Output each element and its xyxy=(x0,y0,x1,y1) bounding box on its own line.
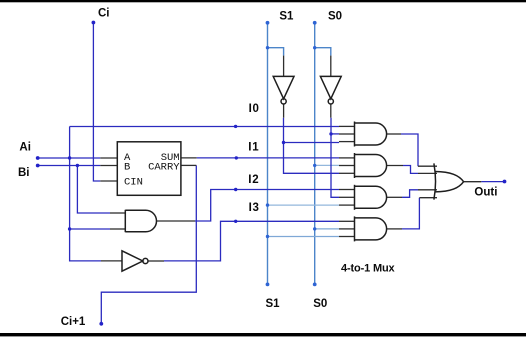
svg-text:B: B xyxy=(124,161,130,173)
svg-text:Ci+1: Ci+1 xyxy=(61,316,86,328)
svg-text:I1: I1 xyxy=(248,142,259,154)
svg-text:S1: S1 xyxy=(279,11,294,23)
svg-text:4-to-1 Mux: 4-to-1 Mux xyxy=(341,262,396,274)
svg-text:S0: S0 xyxy=(328,11,342,23)
svg-text:CIN: CIN xyxy=(124,177,143,189)
svg-text:I0: I0 xyxy=(249,103,260,115)
svg-text:CARRY: CARRY xyxy=(148,161,180,173)
svg-text:S0: S0 xyxy=(313,298,327,310)
svg-text:I3: I3 xyxy=(249,202,260,214)
svg-text:S1: S1 xyxy=(266,298,281,310)
svg-text:Outi: Outi xyxy=(474,187,497,199)
svg-text:Bi: Bi xyxy=(18,167,30,179)
svg-text:I2: I2 xyxy=(248,174,259,186)
svg-text:Ai: Ai xyxy=(19,141,31,153)
svg-text:Ci: Ci xyxy=(98,8,110,20)
